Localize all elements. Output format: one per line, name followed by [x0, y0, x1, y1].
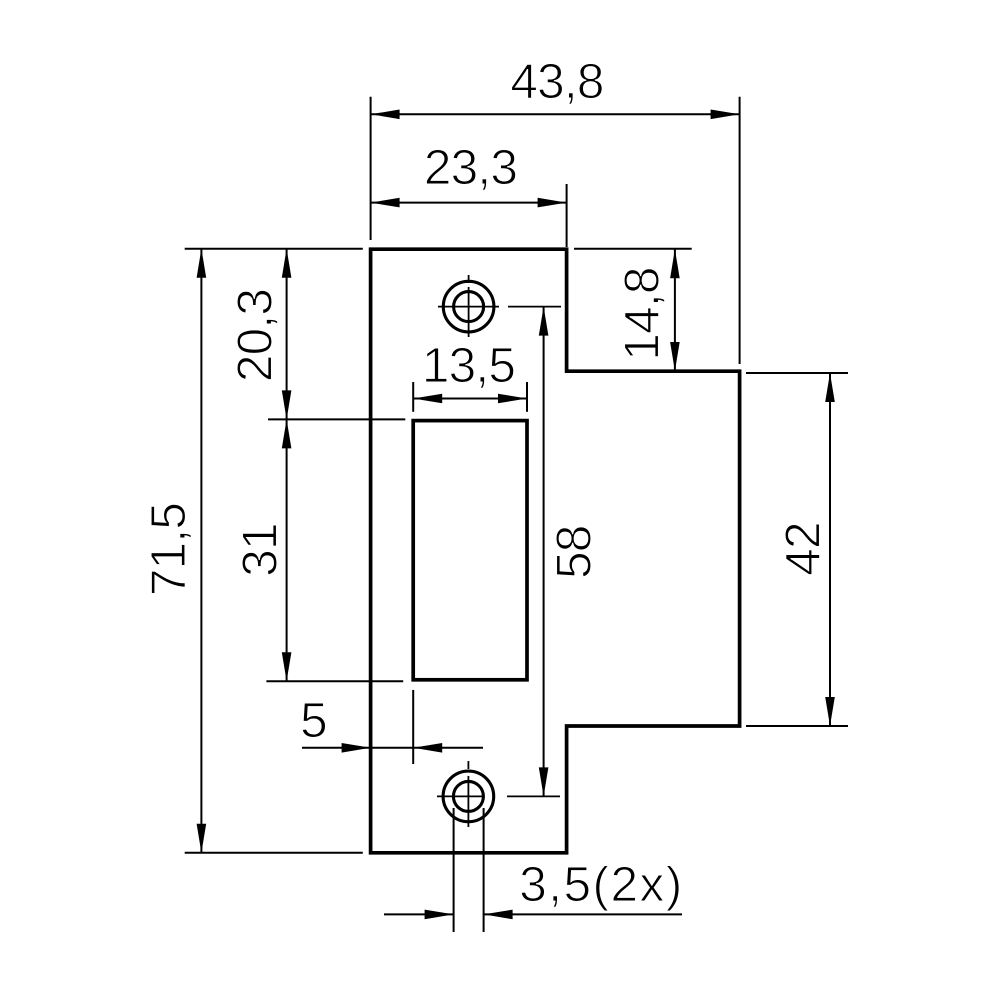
- svg-text:31: 31: [233, 523, 288, 576]
- svg-text:5: 5: [300, 693, 327, 748]
- svg-text:58: 58: [547, 525, 602, 578]
- svg-text:71,5: 71,5: [141, 503, 196, 596]
- svg-text:13,5: 13,5: [422, 338, 515, 393]
- svg-text:42: 42: [776, 522, 831, 575]
- svg-text:23,3: 23,3: [424, 140, 517, 195]
- svg-text:20,3: 20,3: [228, 289, 283, 382]
- svg-text:43,8: 43,8: [510, 54, 603, 109]
- svg-text:3,5(2x): 3,5(2x): [519, 857, 684, 912]
- svg-text:14,8: 14,8: [615, 267, 670, 360]
